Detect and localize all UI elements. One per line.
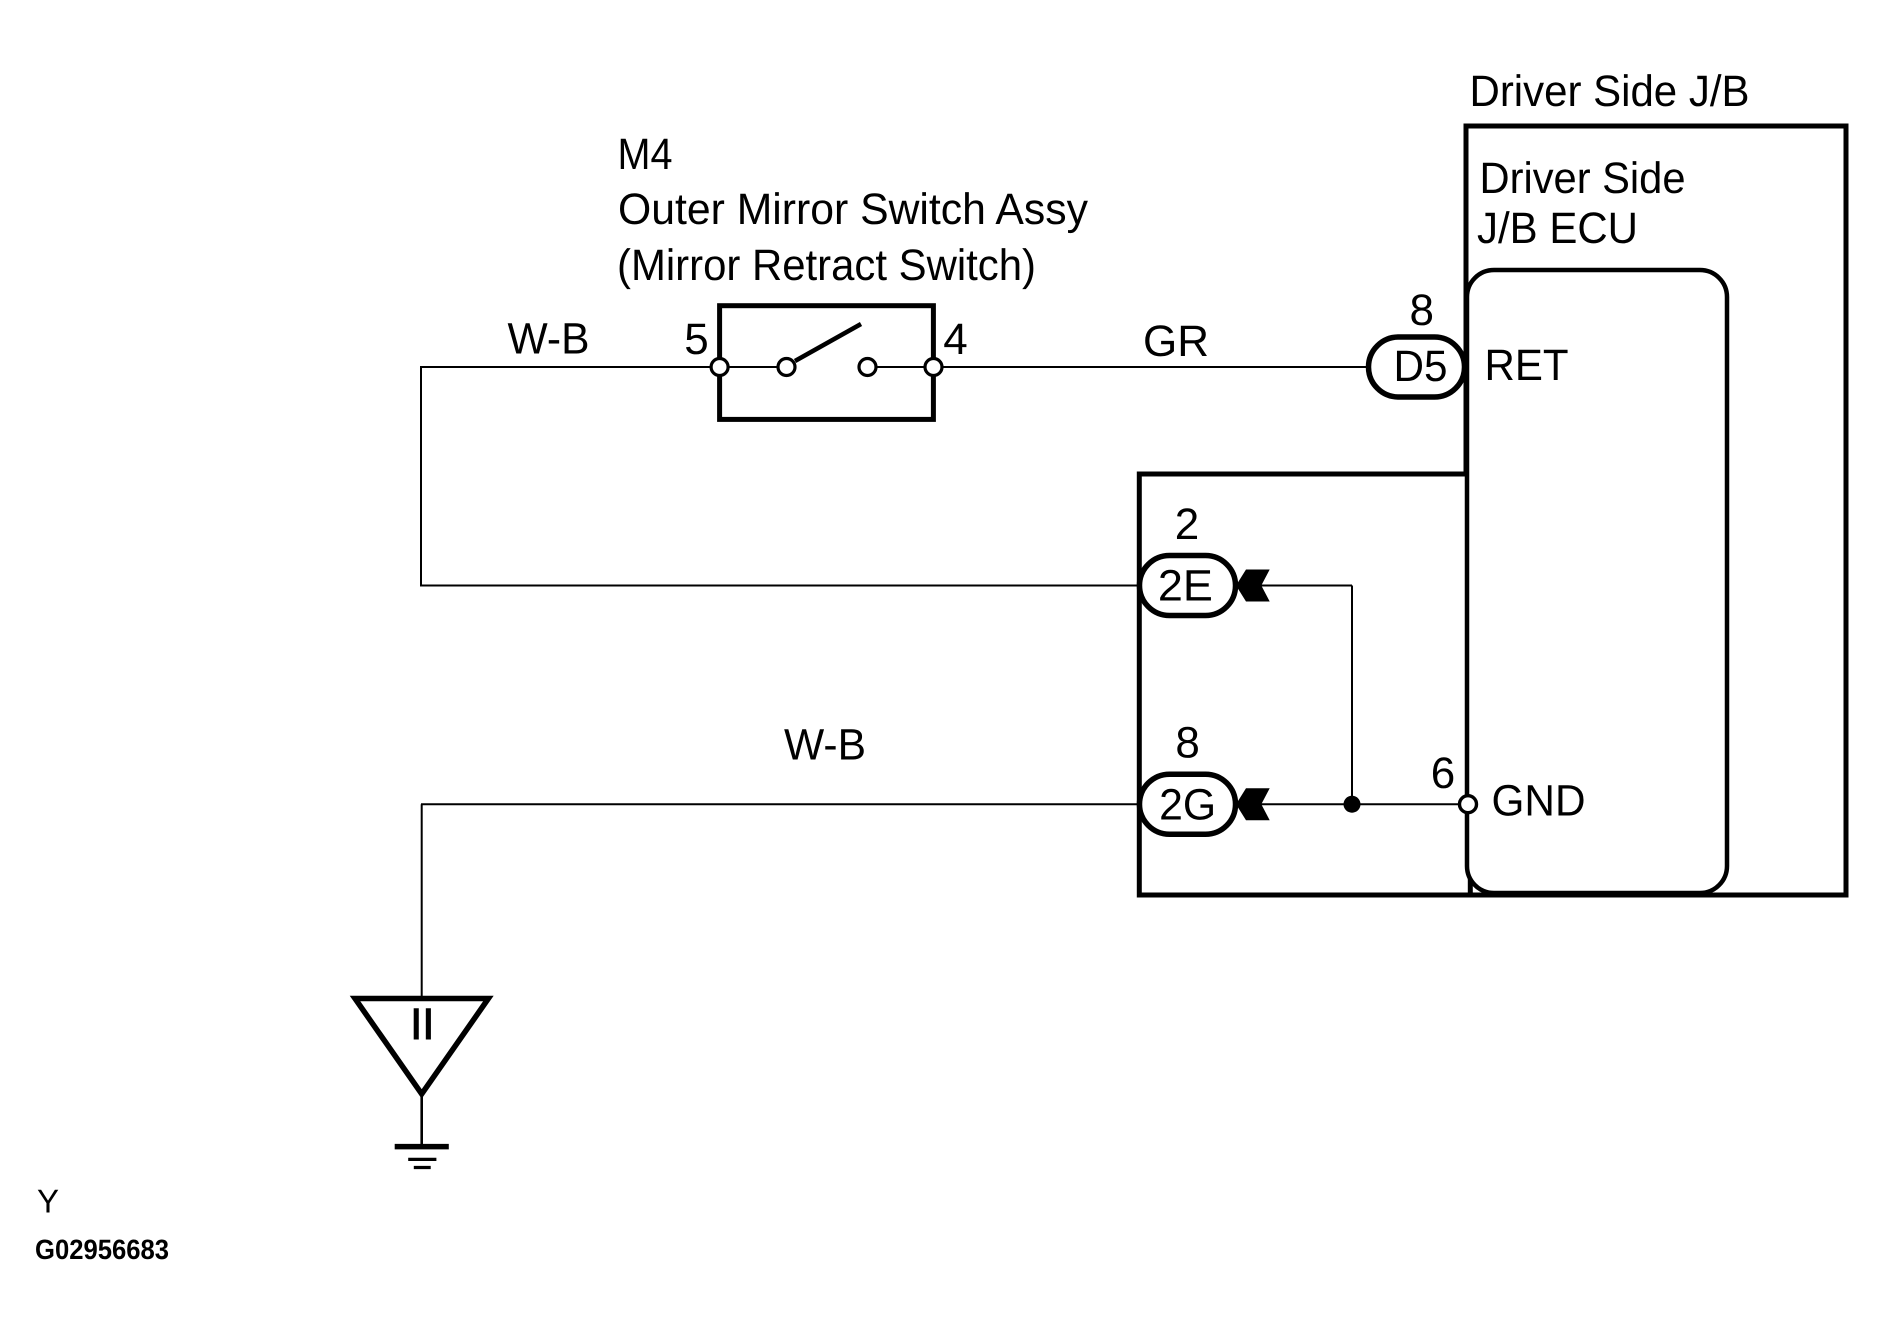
ground bar 3 — [414, 1166, 431, 1169]
pin 6 GND terminal circle — [1460, 796, 1477, 813]
svg-text:8: 8 — [1175, 718, 1199, 767]
svg-text:D5: D5 — [1394, 342, 1448, 391]
ground bar 1 — [395, 1144, 449, 1150]
wire from 2G arrow to GND pin 6 — [1261, 803, 1460, 805]
wire horizontal to connector 2E — [420, 585, 1150, 587]
ground triangle II — [355, 999, 488, 1095]
svg-text:W-B: W-B — [784, 721, 866, 770]
arrow at 2G — [1236, 788, 1270, 820]
wire GR from switch pin 4 to D5 — [867, 366, 1369, 368]
svg-text:GND: GND — [1492, 777, 1586, 826]
switch contact right — [859, 359, 876, 376]
connector 2E oval — [1140, 556, 1236, 616]
wire vertical junction link — [1351, 586, 1353, 805]
svg-text:W-B: W-B — [508, 315, 590, 364]
svg-text:2E: 2E — [1158, 562, 1213, 611]
switch S1 box (Mirror Retract Switch) — [720, 306, 934, 420]
connector block inner box (2E/2G connector) — [1139, 474, 1470, 895]
svg-text:J/B ECU: J/B ECU — [1477, 204, 1638, 253]
svg-text:M4: M4 — [618, 130, 673, 179]
switch contact left — [778, 359, 795, 376]
ground stem — [420, 1094, 423, 1146]
svg-text:Outer Mirror Switch Assy: Outer Mirror Switch Assy — [618, 185, 1088, 234]
svg-text:Y: Y — [37, 1182, 59, 1219]
svg-text:4: 4 — [943, 315, 967, 364]
connector block J/B outer box (Driver Side J/B) — [1466, 126, 1846, 895]
wire vertical down to ground — [421, 804, 423, 998]
svg-text:G02956683: G02956683 — [35, 1234, 169, 1265]
svg-text:II: II — [410, 1000, 434, 1049]
wire vertical left W-B down to 2E row — [420, 366, 422, 586]
switch terminal pin 5 — [711, 359, 728, 376]
junction node dot — [1344, 796, 1361, 813]
switch terminal pin 4 — [925, 359, 942, 376]
wire W-B from left corner to switch pin 5 — [421, 366, 787, 368]
svg-text:Driver Side: Driver Side — [1480, 154, 1686, 203]
connector D5 oval — [1369, 337, 1465, 397]
wire W-B to connector 2G — [421, 803, 1150, 805]
switch lever — [795, 324, 861, 361]
connector 2G oval — [1140, 774, 1236, 834]
svg-text:2: 2 — [1175, 500, 1199, 549]
svg-text:RET: RET — [1485, 341, 1569, 390]
svg-text:GR: GR — [1143, 317, 1209, 366]
svg-text:8: 8 — [1410, 286, 1434, 335]
svg-text:5: 5 — [684, 315, 708, 364]
svg-text:2G: 2G — [1159, 781, 1216, 830]
ECU U1 Driver Side J/B ECU rounded box — [1467, 270, 1727, 893]
svg-text:(Mirror Retract Switch): (Mirror Retract Switch) — [617, 241, 1036, 290]
ground bar 2 — [408, 1158, 436, 1161]
arrow at 2E — [1236, 570, 1270, 602]
wire from 2E arrow to junction vertical — [1261, 585, 1352, 587]
svg-text:Driver Side J/B: Driver Side J/B — [1470, 67, 1750, 116]
svg-text:6: 6 — [1431, 749, 1455, 798]
